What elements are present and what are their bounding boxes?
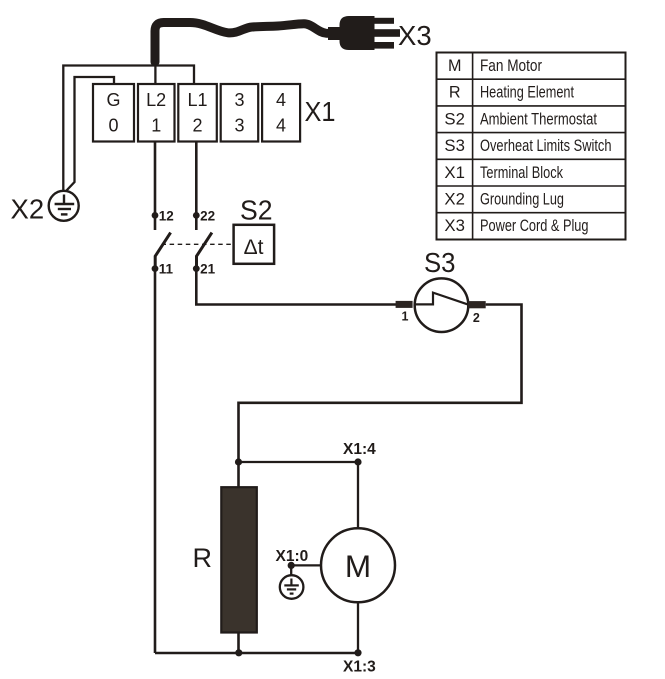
svg-text:12: 12 bbox=[159, 209, 174, 224]
svg-text:M: M bbox=[345, 548, 371, 584]
wire X1:4 to motor bbox=[357, 462, 359, 529]
node 22 bbox=[193, 209, 215, 224]
svg-text:R: R bbox=[193, 543, 213, 573]
node 21 bbox=[193, 262, 216, 277]
svg-text:X1:4: X1:4 bbox=[343, 441, 376, 458]
wire L1 terminal to contact 22 bbox=[195, 142, 198, 231]
dashed actuator link bbox=[162, 243, 234, 245]
svg-text:0: 0 bbox=[108, 116, 118, 136]
wire branch to X1:4 bbox=[239, 461, 359, 463]
svg-text:3: 3 bbox=[234, 90, 244, 110]
wire X1:0 to ground lug bbox=[290, 565, 292, 576]
thermostat S2 contact blade 22-21 bbox=[197, 233, 212, 269]
plug X3 body bbox=[328, 16, 375, 50]
thermostat S2 sensor box bbox=[234, 225, 275, 264]
terminal block X1 cell L1/2 bbox=[178, 84, 217, 142]
wire node to R top bbox=[237, 462, 240, 488]
wire S3 to branch node bbox=[239, 305, 522, 463]
svg-text:2: 2 bbox=[192, 116, 202, 136]
svg-text:Heating Element: Heating Element bbox=[480, 84, 574, 102]
wire X1:0 to motor bbox=[291, 564, 321, 566]
svg-text:S2: S2 bbox=[444, 110, 465, 128]
svg-text:R: R bbox=[449, 84, 461, 102]
heating element R bbox=[193, 487, 257, 632]
svg-text:4: 4 bbox=[276, 90, 286, 110]
svg-text:X1: X1 bbox=[444, 164, 465, 182]
wire motor bottom to rail bbox=[357, 602, 359, 653]
svg-text:Grounding Lug: Grounding Lug bbox=[480, 191, 564, 209]
svg-text:2: 2 bbox=[473, 311, 480, 325]
svg-text:4: 4 bbox=[276, 116, 286, 136]
wire contact 21 to S3 bbox=[196, 269, 396, 305]
wire ground inner bracket to G terminal bbox=[67, 77, 115, 191]
power cord X3 cable bbox=[155, 23, 334, 63]
svg-text:X1:3: X1:3 bbox=[343, 659, 376, 676]
wire ground outer loop to L1 bbox=[63, 66, 194, 191]
svg-text:1: 1 bbox=[402, 310, 409, 324]
bottom rail wire bbox=[155, 652, 358, 655]
svg-text:X3: X3 bbox=[444, 217, 465, 235]
plug prong top bbox=[374, 18, 394, 24]
svg-text:Δt: Δt bbox=[244, 236, 264, 259]
plug prong bottom bbox=[374, 42, 394, 49]
svg-text:Power Cord & Plug: Power Cord & Plug bbox=[480, 217, 589, 235]
svg-text:L2: L2 bbox=[146, 90, 166, 110]
grounding lug X2 bbox=[49, 191, 79, 221]
terminal block X1 cell G/0 bbox=[93, 84, 134, 142]
svg-text:3: 3 bbox=[234, 116, 244, 136]
wire contact 11 down to bottom rail bbox=[154, 269, 157, 653]
node X1:4 bbox=[343, 441, 376, 466]
svg-text:Terminal Block: Terminal Block bbox=[480, 164, 564, 182]
wire R bottom to rail bbox=[237, 633, 240, 654]
wire L2 drop from cord bbox=[154, 66, 156, 85]
svg-text:G: G bbox=[106, 90, 120, 110]
svg-text:11: 11 bbox=[159, 262, 174, 277]
plug prong middle bbox=[374, 29, 400, 37]
node X1:3 bbox=[343, 649, 376, 675]
svg-text:S2: S2 bbox=[240, 195, 273, 226]
terminal block X1 cell 3/3 bbox=[221, 84, 259, 142]
svg-text:X3: X3 bbox=[398, 20, 432, 51]
svg-text:Overheat Limits Switch: Overheat Limits Switch bbox=[480, 137, 612, 155]
node X1:0 bbox=[276, 548, 309, 569]
svg-text:Fan Motor: Fan Motor bbox=[480, 57, 543, 75]
thermostat S2 contact blade 12-11 bbox=[155, 233, 170, 269]
svg-text:21: 21 bbox=[200, 262, 216, 277]
svg-text:X2: X2 bbox=[444, 191, 465, 209]
svg-text:1: 1 bbox=[151, 116, 161, 136]
svg-text:X1: X1 bbox=[305, 96, 336, 127]
svg-text:22: 22 bbox=[200, 209, 215, 224]
svg-text:S3: S3 bbox=[424, 247, 456, 278]
svg-text:X2: X2 bbox=[11, 194, 45, 225]
terminal block X1 cell 4/4 bbox=[262, 84, 300, 142]
svg-text:S3: S3 bbox=[444, 137, 465, 155]
node 11 bbox=[152, 262, 174, 277]
ground symbol at X1:0 bbox=[280, 575, 304, 599]
node at R top bbox=[235, 458, 242, 465]
terminal block X1 cell L2/1 bbox=[138, 84, 175, 142]
svg-text:Ambient Thermostat: Ambient Thermostat bbox=[480, 110, 597, 128]
svg-text:M: M bbox=[448, 57, 461, 75]
legend table bbox=[437, 53, 626, 240]
svg-text:X1:0: X1:0 bbox=[276, 548, 309, 565]
wire L2 terminal to contact 12 bbox=[154, 142, 157, 231]
fan motor M bbox=[321, 528, 395, 602]
junction R bottom bbox=[235, 649, 242, 656]
overheat switch S3 bbox=[396, 278, 486, 332]
node 12 bbox=[152, 209, 174, 224]
svg-text:L1: L1 bbox=[187, 90, 207, 110]
